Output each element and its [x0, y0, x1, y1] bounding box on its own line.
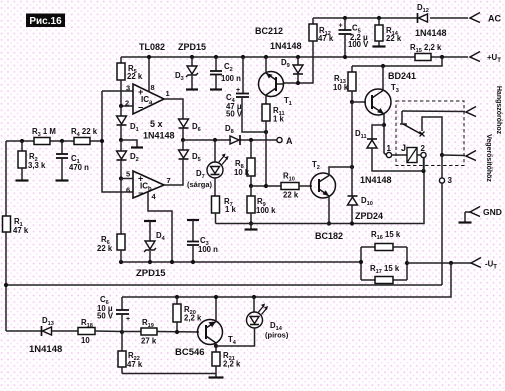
junction D11 to coil return	[421, 169, 425, 173]
junction C5 top	[343, 16, 347, 20]
relay switch arm	[403, 124, 425, 137]
label pin4	[152, 192, 157, 201]
wire left column x6	[5, 141, 7, 331]
svg-text:1N4148: 1N4148	[143, 131, 175, 141]
label TL082	[139, 42, 165, 52]
junction C6/R22 node	[120, 330, 124, 334]
wire speaker line	[402, 110, 465, 113]
svg-text:3: 3	[126, 84, 130, 93]
junction C5 bottom	[343, 55, 347, 59]
terminal +UT	[470, 52, 501, 65]
relay terminal 2	[421, 144, 427, 158]
label pin3	[126, 84, 130, 93]
label 1N4148 (D13)	[29, 344, 62, 355]
svg-text:22 k: 22 k	[283, 191, 299, 200]
wire relay common down	[441, 155, 443, 178]
svg-text:47 k: 47 k	[127, 360, 143, 369]
svg-text:D3: D3	[175, 71, 184, 82]
label R22 47k	[127, 351, 143, 369]
svg-text:AC: AC	[488, 14, 501, 24]
junction T4 emitter node	[214, 344, 218, 348]
label BC212	[255, 26, 283, 36]
wire -UT line	[407, 262, 471, 264]
wire ground rail y223.5	[216, 158, 425, 224]
op-amp IC_a	[133, 84, 164, 114]
svg-text:(piros): (piros)	[265, 331, 289, 340]
junction -UT to lower stage	[449, 261, 453, 265]
wire T3 emitter to relay pin1	[384, 125, 387, 155]
svg-text:470 n: 470 n	[69, 163, 89, 172]
wire IC_b pin4 to -rail	[148, 192, 172, 262]
wire R16/R17 left link	[361, 247, 375, 280]
label Vegerositohoz	[485, 134, 492, 182]
svg-text:D7: D7	[196, 169, 205, 180]
svg-text:ZPD24: ZPD24	[355, 211, 383, 221]
diode D6	[179, 119, 189, 140]
junction relay common	[440, 153, 444, 157]
svg-text:+: +	[126, 316, 130, 323]
svg-text:2,2 k: 2,2 k	[184, 314, 202, 323]
svg-text:R16 15 k: R16 15 k	[371, 230, 401, 241]
resistor R18	[78, 328, 122, 335]
transistor T3 BD241	[365, 66, 391, 125]
label R1 47k	[13, 217, 29, 235]
svg-text:GND: GND	[483, 207, 502, 217]
diode D8	[230, 135, 240, 145]
wire rail297	[122, 263, 451, 297]
svg-text:100 n: 100 n	[221, 74, 241, 83]
diode D13	[42, 326, 52, 336]
ground under R9	[245, 224, 258, 230]
junction R14 top	[377, 16, 381, 20]
svg-text:ZPD15: ZPD15	[178, 42, 206, 52]
svg-text:22 k: 22 k	[127, 72, 143, 81]
junction D1-D2 midpoint	[119, 138, 123, 142]
diode D1	[117, 106, 127, 140]
label R13 10k	[333, 74, 349, 92]
wire D13 line y331	[6, 330, 78, 332]
capacitor C3	[187, 220, 199, 262]
zener D10	[348, 167, 358, 224]
label 1N4148 (D11)	[360, 175, 392, 185]
label R15 2,2k	[410, 43, 442, 54]
svg-text:D8: D8	[225, 124, 234, 135]
junction D9 top	[296, 55, 300, 59]
svg-text:D4: D4	[156, 231, 166, 242]
ground under C1	[56, 179, 69, 181]
resistor R16	[375, 244, 393, 251]
label BC182	[315, 231, 343, 241]
svg-text:+: +	[236, 87, 240, 94]
terminal 3	[439, 176, 452, 185]
terminal Vegerositohoz	[466, 151, 476, 161]
junction T4 collector	[214, 295, 218, 299]
svg-text:5: 5	[126, 170, 130, 179]
svg-text:47 k: 47 k	[13, 226, 29, 235]
terminal -UT	[471, 258, 497, 271]
junction R20 top	[175, 295, 179, 299]
zener D4	[144, 221, 156, 262]
terminal Hangszorohoz	[466, 107, 476, 117]
svg-text:R10: R10	[283, 172, 295, 183]
label R16 15k	[371, 230, 401, 241]
junction R8 tap	[249, 138, 253, 142]
label C2 100n	[221, 62, 241, 83]
junction pin8 rail	[147, 55, 151, 59]
svg-text:Рис.16: Рис.16	[29, 16, 62, 27]
wire node y186 to R10	[251, 185, 281, 187]
wire IC_b pin5	[121, 178, 133, 180]
label R20 2,2k	[184, 305, 202, 323]
label ZPD15 bottom	[136, 268, 166, 279]
svg-text:1 k: 1 k	[273, 115, 285, 124]
relay contact wire	[422, 117, 442, 155]
wire IC_a output	[164, 99, 183, 119]
diode D2	[117, 140, 127, 179]
capacitor C6	[116, 297, 130, 332]
transistor T2 BC182	[311, 167, 353, 224]
svg-text:D13: D13	[42, 316, 54, 327]
wire -15V rail y262	[121, 261, 361, 263]
wire rail y285	[6, 284, 442, 286]
wire AC rail y18	[313, 17, 468, 19]
wire bottom rail y373	[122, 373, 216, 375]
op-amp IC_b	[133, 171, 164, 198]
resistor R11	[262, 104, 270, 186]
label Hangszorohoz	[495, 86, 502, 135]
wire terminal3 down to rail285	[441, 184, 443, 286]
label D10	[361, 196, 373, 207]
svg-text:2,2 k: 2,2 k	[223, 360, 241, 369]
label R12 47k	[318, 26, 334, 43]
resistor R14	[373, 18, 386, 47]
label R4 22k	[71, 127, 98, 138]
wire input rail y141 with R3 R4 inline	[6, 140, 102, 142]
resistor R2	[18, 141, 26, 180]
resistor R1	[3, 216, 11, 232]
svg-text:2: 2	[421, 144, 426, 153]
capacitor C2	[210, 55, 222, 90]
junction pin5	[119, 176, 123, 180]
capacitor C1	[56, 141, 68, 180]
junction R8/R9/R10 node	[249, 184, 253, 188]
wire IC_b output pin7	[164, 160, 183, 185]
junction pin4 wire bottom	[170, 260, 174, 264]
label R21 2,2k	[223, 351, 241, 369]
label D9	[281, 58, 290, 69]
transistor T1 BC212	[259, 57, 284, 104]
svg-text:R4 22 k: R4 22 k	[71, 127, 98, 138]
diode D9	[293, 57, 303, 83]
resistor R20	[173, 297, 181, 332]
label BD241	[388, 71, 416, 81]
svg-text:ZPD15: ZPD15	[136, 268, 166, 279]
wire comparator output y140	[183, 139, 277, 141]
svg-text:100 V: 100 V	[348, 40, 369, 49]
label ZPD24	[355, 211, 383, 221]
label D1	[130, 122, 139, 133]
svg-text:R17 15 k: R17 15 k	[370, 264, 400, 275]
svg-text:Hangszóróhoz: Hangszóróhoz	[495, 86, 502, 135]
svg-text:D11: D11	[355, 129, 367, 140]
wire T3 base	[352, 102, 366, 167]
label T1	[284, 96, 292, 107]
svg-text:T2: T2	[312, 160, 320, 171]
label R9 100k	[256, 197, 276, 215]
resistor R15 inline on +UT rail	[415, 54, 431, 61]
label J	[401, 143, 406, 153]
svg-text:T1: T1	[284, 96, 292, 107]
ground stub at D1/D2 midpoint	[121, 140, 143, 148]
wire amplifier line	[442, 154, 465, 157]
svg-text:1N4148: 1N4148	[360, 175, 392, 185]
svg-text:R3 1 M: R3 1 M	[32, 127, 56, 138]
svg-text:T3: T3	[391, 83, 399, 94]
label R8 10k	[234, 159, 250, 177]
resistor R9	[247, 186, 255, 224]
junction rail285 left	[4, 283, 8, 287]
svg-text:4: 4	[152, 192, 157, 201]
svg-text:10 k: 10 k	[234, 168, 250, 177]
svg-text:10: 10	[81, 336, 90, 345]
svg-text:1N4148: 1N4148	[29, 344, 62, 355]
label R19 27k	[141, 318, 157, 346]
svg-text:D2: D2	[130, 152, 139, 163]
wire R16/R17 right link	[393, 247, 407, 280]
junction C1 top	[60, 139, 64, 143]
svg-text:D5: D5	[192, 152, 201, 163]
junction T3 emitter / D11 branch	[382, 123, 386, 127]
ground under R2	[16, 179, 29, 181]
label R18 10	[81, 318, 93, 345]
label D7 sarga	[187, 169, 213, 189]
junction T3 collector feed	[381, 64, 385, 68]
resistor R22	[118, 332, 126, 374]
junction comparator output	[181, 138, 185, 142]
svg-text:6: 6	[126, 186, 130, 195]
svg-text:8: 8	[151, 83, 155, 92]
svg-text:D1: D1	[130, 122, 139, 133]
transistor T4 BC546	[198, 297, 223, 346]
junction rail262 into pair	[359, 260, 363, 264]
svg-text:50 V: 50 V	[226, 110, 243, 119]
relay contact pole wire	[400, 111, 407, 124]
svg-text:−: −	[138, 103, 143, 113]
svg-text:Vegerősítőhöz: Vegerősítőhöz	[485, 134, 492, 182]
label C4 47u 50V	[226, 93, 243, 119]
label D13	[42, 316, 54, 327]
label C5 2,2u 100V	[348, 24, 369, 50]
resistor R3	[34, 138, 50, 145]
label R6 22k	[97, 235, 113, 253]
terminal AC	[470, 13, 501, 24]
svg-text:100 k: 100 k	[256, 206, 276, 215]
junction T1 emitter rail	[264, 55, 268, 59]
label pin8	[151, 83, 155, 92]
capacitor C5	[339, 18, 352, 57]
svg-text:22 k: 22 k	[97, 244, 113, 253]
zener D3	[186, 55, 198, 90]
junction R4 to x102	[100, 139, 104, 143]
svg-text:D12: D12	[417, 3, 429, 14]
svg-text:-UT: -UT	[485, 260, 497, 271]
label R10 22k	[283, 172, 299, 200]
label D12	[417, 3, 429, 14]
label 1N4148 (D12)	[415, 28, 447, 38]
label R17 15k	[370, 264, 400, 275]
svg-text:1: 1	[166, 89, 170, 98]
label pin6	[126, 186, 130, 195]
wire IC_a pin2	[121, 105, 133, 107]
svg-text:1N4148: 1N4148	[270, 41, 302, 51]
junction D4 bottom	[148, 260, 152, 264]
label D14 piros	[265, 321, 289, 340]
label T3	[391, 83, 399, 94]
capacitor C4 electrolytic	[236, 55, 266, 132]
diode D5	[179, 140, 189, 160]
label pin2	[125, 99, 129, 108]
relay terminal 1	[386, 144, 391, 158]
svg-text:D10: D10	[361, 196, 373, 207]
junction D10 ground	[350, 221, 354, 225]
node A terminal	[277, 136, 293, 146]
junction R11 bottom node	[264, 184, 268, 188]
label pin5	[126, 170, 130, 179]
label R5 22k	[127, 64, 143, 81]
svg-text:T4: T4	[228, 335, 237, 346]
svg-text:J: J	[401, 143, 406, 153]
wire IC_a pin8 to +rail	[148, 57, 150, 92]
junction R20 base node	[175, 330, 179, 334]
wire +UT rail y57	[121, 56, 468, 58]
label R11 1k	[273, 106, 285, 124]
svg-text:1 k: 1 k	[225, 205, 237, 214]
terminal GND	[459, 207, 481, 223]
label BC546	[175, 347, 205, 358]
label 5x 1N4148	[143, 119, 175, 141]
svg-text:R15 2,2 k: R15 2,2 k	[410, 43, 442, 54]
junction pair output	[405, 261, 409, 265]
label C1 470n	[69, 154, 89, 172]
junction C4 to R11 node	[264, 130, 268, 134]
resistor R4	[74, 138, 90, 145]
label D3	[175, 71, 184, 82]
junction R9 ground	[249, 221, 253, 225]
diode D12	[418, 13, 428, 23]
junction pin2/R5	[119, 104, 123, 108]
label R7 1k	[224, 197, 237, 214]
svg-text:+UT: +UT	[487, 53, 501, 64]
junction D7 tap	[213, 138, 217, 142]
ground bottom	[209, 374, 224, 378]
relay dashed enclosure	[396, 101, 464, 166]
label R3 1M	[32, 127, 56, 138]
label C3 100n	[198, 236, 218, 254]
svg-text:3: 3	[448, 176, 453, 185]
resistor R6	[117, 179, 125, 263]
label 1N4148 (D9)	[270, 41, 302, 51]
svg-text:BC212: BC212	[255, 26, 283, 36]
svg-text:D9: D9	[281, 58, 290, 69]
svg-text:C2: C2	[224, 62, 233, 73]
resistor R13	[348, 66, 356, 102]
wire terminal2 down to ground rail	[423, 158, 425, 172]
svg-text:+: +	[339, 23, 343, 30]
svg-text:1N4148: 1N4148	[415, 28, 447, 38]
junction T2 collector	[350, 165, 354, 169]
svg-text:7: 7	[167, 176, 171, 185]
svg-text:BC182: BC182	[315, 231, 343, 241]
resistor R19	[122, 328, 199, 335]
junction T3 base node	[350, 100, 354, 104]
junction R6 bottom	[119, 260, 123, 264]
label T4	[228, 335, 237, 346]
wire y66 collector feed	[352, 57, 442, 66]
resistor R10	[281, 183, 312, 190]
label C6 10u 50V	[97, 295, 114, 321]
diode D11	[367, 125, 423, 171]
junction +UT branch	[440, 55, 444, 59]
svg-text:100 n: 100 n	[198, 245, 218, 254]
resistor R21	[212, 346, 220, 374]
label pin1	[166, 89, 170, 98]
svg-text:47 k: 47 k	[318, 34, 334, 43]
svg-text:D6: D6	[192, 122, 201, 133]
resistor R12	[283, 18, 317, 83]
svg-text:(sárga): (sárga)	[187, 180, 213, 189]
svg-text:22 k: 22 k	[386, 34, 402, 43]
junction D9 bottom	[296, 81, 300, 85]
label pin7	[167, 176, 171, 185]
junction T2 emitter	[327, 221, 331, 225]
resistor R8	[247, 140, 255, 186]
label R14 22k	[386, 26, 402, 43]
svg-text:5 x: 5 x	[150, 119, 163, 129]
label D5	[192, 152, 201, 163]
label R2 3,3k	[28, 152, 46, 170]
svg-text:27 k: 27 k	[141, 337, 157, 346]
svg-text:1: 1	[387, 144, 392, 153]
relay coil J	[392, 148, 421, 163]
label ZPD15 top	[178, 42, 206, 52]
svg-text:BC546: BC546	[175, 347, 205, 358]
label T2	[312, 160, 320, 171]
resistor R17	[375, 277, 393, 284]
label GND	[483, 207, 502, 217]
label D2	[130, 152, 139, 163]
svg-text:BD241: BD241	[388, 71, 416, 81]
svg-text:3,3 k: 3,3 k	[28, 161, 46, 170]
label D6	[192, 122, 201, 133]
wire x102 column (pin3/pin6 input)	[102, 91, 133, 192]
junction R2 top	[20, 139, 24, 143]
LED D7	[207, 140, 229, 196]
resistor R5	[117, 57, 125, 106]
label D8	[225, 124, 234, 135]
svg-text:50 V: 50 V	[97, 312, 114, 321]
resistor R7	[212, 196, 220, 224]
figure label Рис.16	[26, 14, 65, 28]
label D4	[156, 231, 166, 242]
svg-text:10 k: 10 k	[333, 83, 349, 92]
svg-text:A: A	[286, 136, 293, 146]
LED D14	[216, 295, 268, 346]
junction C3 bottom	[191, 260, 195, 264]
svg-text:TL082: TL082	[139, 42, 165, 52]
label D11	[355, 129, 367, 140]
